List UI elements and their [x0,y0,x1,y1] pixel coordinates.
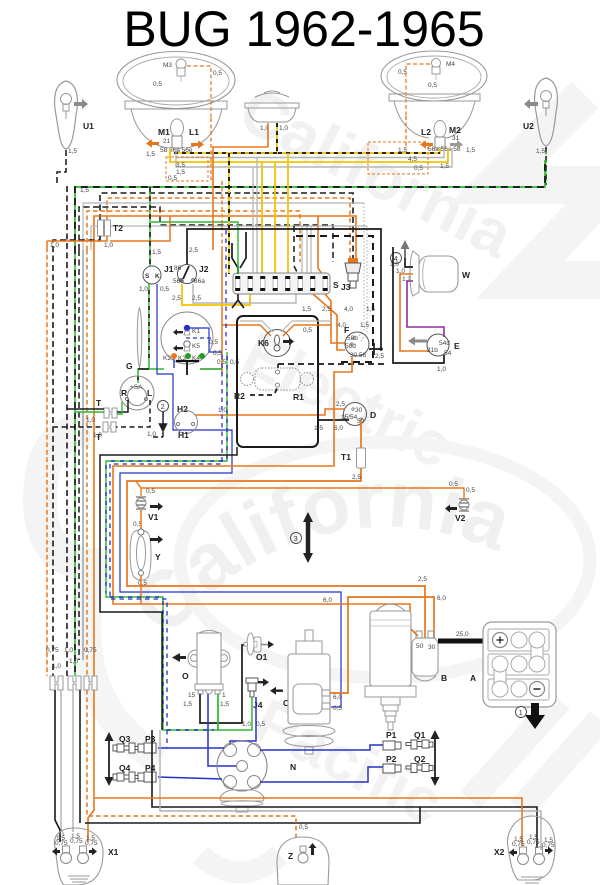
svg-text:Y: Y [155,552,161,562]
svg-text:K2: K2 [163,355,171,362]
svg-text:0,5: 0,5 [333,705,342,712]
wire gray 1 [176,148,444,158]
fusebox bottom wires [232,294,244,308]
svg-text:0,5: 0,5 [256,721,265,728]
marker 3 arrow [306,521,311,554]
switch J3 [348,258,358,263]
svg-text:0,75: 0,75 [542,842,555,849]
T1 fuse [360,420,362,448]
svg-text:1,0: 1,0 [390,261,399,268]
horn [245,91,299,153]
svg-text:Z: Z [288,851,293,861]
svg-text:T: T [96,398,102,408]
wire black dashed y193 [100,193,353,260]
wire black column x79 [78,250,80,660]
wiper motor W [419,256,458,292]
svg-text:0,5: 0,5 [209,339,218,346]
svg-text:1,0: 1,0 [242,721,251,728]
gray drops [253,158,257,278]
svg-text:1,5: 1,5 [183,701,192,708]
orange wire V1 V2 [136,481,464,499]
connectors H row [50,676,97,690]
svg-text:21: 21 [163,138,171,145]
K bus wires [176,360,199,362]
svg-text:L2: L2 [421,127,431,137]
svg-text:H1: H1 [178,430,189,440]
svg-text:X2: X2 [494,847,505,857]
wire orange y216 [94,216,356,274]
long wires to rear [152,730,537,848]
svg-text:F: F [344,325,349,335]
headlight left [117,52,271,374]
svg-text:U2: U2 [523,121,534,131]
yellow drops to fusebox [261,162,263,277]
svg-text:2,5: 2,5 [322,306,331,313]
svg-text:0,5: 0,5 [160,286,169,293]
battery cable [438,639,494,644]
svg-text:N: N [290,762,296,772]
svg-text:86a: 86a [194,278,205,285]
svg-text:BUG 1962-1965: BUG 1962-1965 [123,1,484,57]
lamp K1 [184,325,190,331]
svg-text:R: R [121,388,127,398]
blue wire J1 long run [120,284,341,707]
svg-text:O1: O1 [256,652,268,662]
svg-text:1,5: 1,5 [536,148,545,155]
wire gray y203 [83,203,364,250]
svg-text:1,5: 1,5 [302,306,311,313]
spark plug wires blue [158,747,224,749]
svg-text:6,0: 6,0 [323,597,332,604]
switch J2 [187,229,381,349]
ignition switch D [344,403,367,426]
svg-text:1,5: 1,5 [366,306,375,313]
bulb L1/M1 [171,119,184,137]
svg-text:2,5: 2,5 [375,353,384,360]
wire gray 2 [176,148,452,167]
svg-text:1,5: 1,5 [398,147,407,154]
wire orange dashed y198 [107,198,350,263]
svg-text:X1: X1 [108,847,119,857]
J4 connector [246,678,258,683]
svg-text:0,5: 0,5 [299,824,308,831]
turn signal U2 [523,78,557,185]
svg-text:1,0: 1,0 [86,417,95,424]
svg-text:G: G [126,361,133,371]
speedometer [161,312,213,364]
radio R1 R2 [255,368,300,390]
generator wires [330,597,434,693]
svg-text:4,0: 4,0 [344,306,353,313]
horn black-yellow drop [229,153,277,274]
K6 cluster frame [237,316,318,447]
wire T2 right orange [47,236,107,676]
coil wires [200,645,244,723]
svg-text:W: W [462,270,471,280]
svg-text:T2: T2 [113,223,123,233]
wire U2 down [545,147,547,185]
bulb M4 [432,59,441,68]
svg-text:D: D [370,410,376,420]
svg-text:56: 56 [359,352,367,359]
svg-text:K5: K5 [192,343,200,350]
ignition coil O [188,650,230,667]
svg-text:0,5: 0,5 [230,359,239,366]
svg-text:R1: R1 [293,392,304,402]
svg-text:0,5: 0,5 [168,175,177,182]
generator [305,630,313,641]
svg-text:0,5: 0,5 [213,70,222,77]
svg-text:1,5: 1,5 [466,147,475,154]
svg-text:Q1: Q1 [414,730,426,740]
svg-text:1: 1 [222,692,226,699]
svg-text:1,5: 1,5 [440,163,449,170]
svg-text:30: 30 [428,644,436,651]
tail light X1 [54,828,103,885]
distributor N [217,741,267,791]
svg-text:1,0: 1,0 [104,242,113,249]
svg-text:2,5: 2,5 [189,247,198,254]
svg-text:1,5: 1,5 [220,701,229,708]
motor O1 [247,633,254,655]
svg-text:0,5: 0,5 [213,350,222,357]
right headlight drops [405,116,407,150]
wire green tee to fuse1 [151,222,238,274]
svg-text:S: S [145,273,150,280]
svg-text:1,5: 1,5 [314,425,323,432]
svg-text:1,0: 1,0 [52,663,61,670]
svg-text:0,5: 0,5 [414,165,423,172]
svg-text:2: 2 [161,404,165,411]
svg-text:1,0: 1,0 [69,658,78,665]
svg-text:0,5: 0,5 [146,488,155,495]
svg-text:6,0: 6,0 [334,425,343,432]
svg-text:50: 50 [416,643,424,650]
svg-text:T1: T1 [341,452,351,462]
svg-text:31b: 31b [427,347,438,354]
lamp V1 [136,497,146,509]
headlight right [381,51,487,154]
lamp K5 [184,341,190,347]
stalk lever [137,308,142,368]
svg-text:1,0: 1,0 [139,286,148,293]
svg-text:15: 15 [188,692,196,699]
svg-text:1,5: 1,5 [360,322,369,329]
wire green column [74,250,76,676]
svg-text:4,5: 4,5 [408,156,417,163]
funnel wires above fuse 1 [232,243,238,274]
svg-text:A: A [470,673,476,683]
svg-text:0,75: 0,75 [512,841,525,848]
svg-text:1,0: 1,0 [279,125,288,132]
orange dashed from M3 col [211,118,222,250]
fuel sender Y [130,530,151,580]
wire T2 left black [53,236,100,676]
svg-text:2,5: 2,5 [172,295,181,302]
svg-text:3: 3 [294,536,298,543]
svg-text:R2: R2 [234,391,245,401]
green wire J1 to G and engine [138,284,164,383]
svg-text:1,5: 1,5 [176,169,185,176]
wire yellow from J2 [182,284,250,305]
svg-text:30: 30 [350,352,358,359]
svg-text:6,0: 6,0 [437,595,446,602]
wire gray from J2 [193,284,296,303]
C label arrow [270,687,283,695]
svg-text:P2: P2 [386,754,397,764]
wire orange dashed y211 [87,211,300,262]
svg-text:L: L [147,388,152,398]
green + blue dashed columns to engine [106,352,227,730]
svg-text:2,5: 2,5 [192,295,201,302]
wire gray y226 [91,226,367,250]
horn wires [267,123,269,147]
svg-text:J3: J3 [341,282,351,292]
svg-text:0,5: 0,5 [138,580,147,587]
svg-text:54: 54 [444,350,452,357]
svg-text:J2: J2 [199,264,209,274]
svg-text:6,0: 6,0 [333,694,342,701]
svg-text:1,0: 1,0 [64,647,73,654]
svg-text:1,0: 1,0 [50,242,59,249]
orange F30 wire [113,356,418,636]
svg-text:0,5: 0,5 [449,481,458,488]
wire black-yellow horiz [174,148,440,153]
svg-text:J4: J4 [253,700,263,710]
svg-text:0,5: 0,5 [153,81,162,88]
wire from U1 down [57,150,66,186]
svg-text:1,5: 1,5 [146,151,155,158]
wire gray column x83 [82,250,84,660]
svg-text:0,75: 0,75 [527,839,540,846]
svg-text:1: 1 [519,710,523,717]
svg-text:54d: 54d [439,340,450,347]
arrows [146,139,159,148]
svg-text:+SA: +SA [130,384,143,391]
svg-text:P1: P1 [386,730,397,740]
svg-text:1,5: 1,5 [80,187,89,194]
marker 1 arrow [531,703,539,716]
svg-text:1,0: 1,0 [93,432,102,439]
turn signal U1 [55,81,95,186]
TITLE [123,1,484,57]
svg-text:31: 31 [452,135,460,142]
fuse box S [233,273,330,294]
svg-text:1,0: 1,0 [218,407,227,414]
svg-text:M3: M3 [163,62,172,69]
bulb M3 [176,59,186,69]
svg-text:3,5: 3,5 [176,162,185,169]
dashed from gauge L [116,400,150,427]
svg-text:1,5: 1,5 [152,249,161,256]
gray drops to fuses [302,226,311,274]
svg-text:86: 86 [174,265,182,272]
svg-text:U1: U1 [83,121,94,131]
svg-text:0,75: 0,75 [46,647,59,654]
svg-text:K: K [155,273,160,280]
wire black dashed y207 [79,207,333,262]
bulb L2/M2 [434,121,446,138]
svg-text:Q2: Q2 [414,754,426,764]
lamp V2 [459,499,469,511]
switch E [427,334,449,356]
svg-text:30: 30 [355,407,363,414]
blue wires at speedo [190,328,222,352]
svg-text:L1: L1 [189,127,199,137]
horn orange wire to column [213,147,268,250]
wire U1 column [66,186,68,676]
headlight connector left [166,157,208,181]
headlight connector right [368,142,428,174]
svg-text:1,5: 1,5 [68,148,77,155]
battery A [483,622,556,707]
svg-text:2,5: 2,5 [336,401,345,408]
svg-text:K1: K1 [192,328,200,335]
svg-text:V2: V2 [455,513,466,523]
wire orange column x94 [93,250,95,798]
svg-text:0,75: 0,75 [70,838,83,845]
tail light X2 [507,816,555,880]
starter B [375,604,406,612]
license light Z [277,837,329,885]
switch J1 [149,187,151,266]
marker 4 arrow [404,249,406,258]
svg-text:0,5: 0,5 [428,82,437,89]
svg-text:2,5: 2,5 [352,474,361,481]
svg-text:M1: M1 [158,127,170,137]
svg-text:J1: J1 [164,264,174,274]
wire orange dashed column x87 [86,250,88,676]
svg-text:0,5: 0,5 [303,327,312,334]
wires below connectors [55,690,60,842]
svg-text:M4: M4 [446,61,455,68]
wire yellow [170,148,448,162]
svg-text:S: S [333,280,339,290]
svg-text:O: O [182,671,189,681]
svg-text:E: E [454,341,460,351]
svg-text:V1: V1 [148,512,159,522]
wire green main [75,160,545,250]
svg-text:B: B [441,673,447,683]
svg-text:K6: K6 [258,338,269,348]
marker 2 [158,401,169,412]
lamp K6 [264,330,291,357]
svg-text:56b: 56b [173,278,184,285]
connector T2 [98,220,104,236]
dashed frame box [296,236,373,362]
svg-text:0,75: 0,75 [85,840,98,847]
svg-text:0,75: 0,75 [84,647,97,654]
svg-text:0,75: 0,75 [55,840,68,847]
svg-text:25,0: 25,0 [456,631,469,638]
svg-text:M2: M2 [449,125,461,135]
svg-text:0,5: 0,5 [466,487,475,494]
svg-text:1,0: 1,0 [437,366,446,373]
svg-text:2,5: 2,5 [418,576,427,583]
